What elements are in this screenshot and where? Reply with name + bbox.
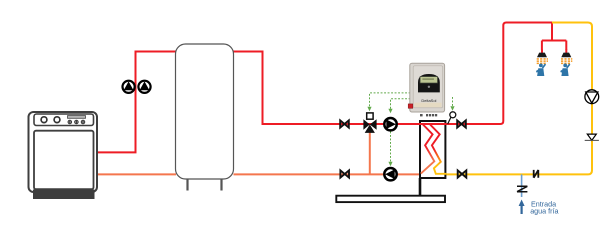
svg-text:DeltaSol: DeltaSol bbox=[421, 98, 436, 103]
svg-text:agua fría: agua fría bbox=[530, 207, 558, 216]
